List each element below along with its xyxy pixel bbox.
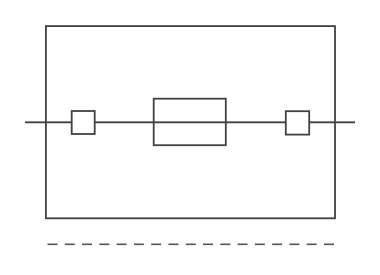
terminal clamp right [286,111,309,134]
fuse [154,99,226,146]
terminal clamp left [72,111,95,134]
enclosure outline [46,26,335,218]
DIN rail (dashed) [48,243,335,245]
wire [25,121,355,123]
